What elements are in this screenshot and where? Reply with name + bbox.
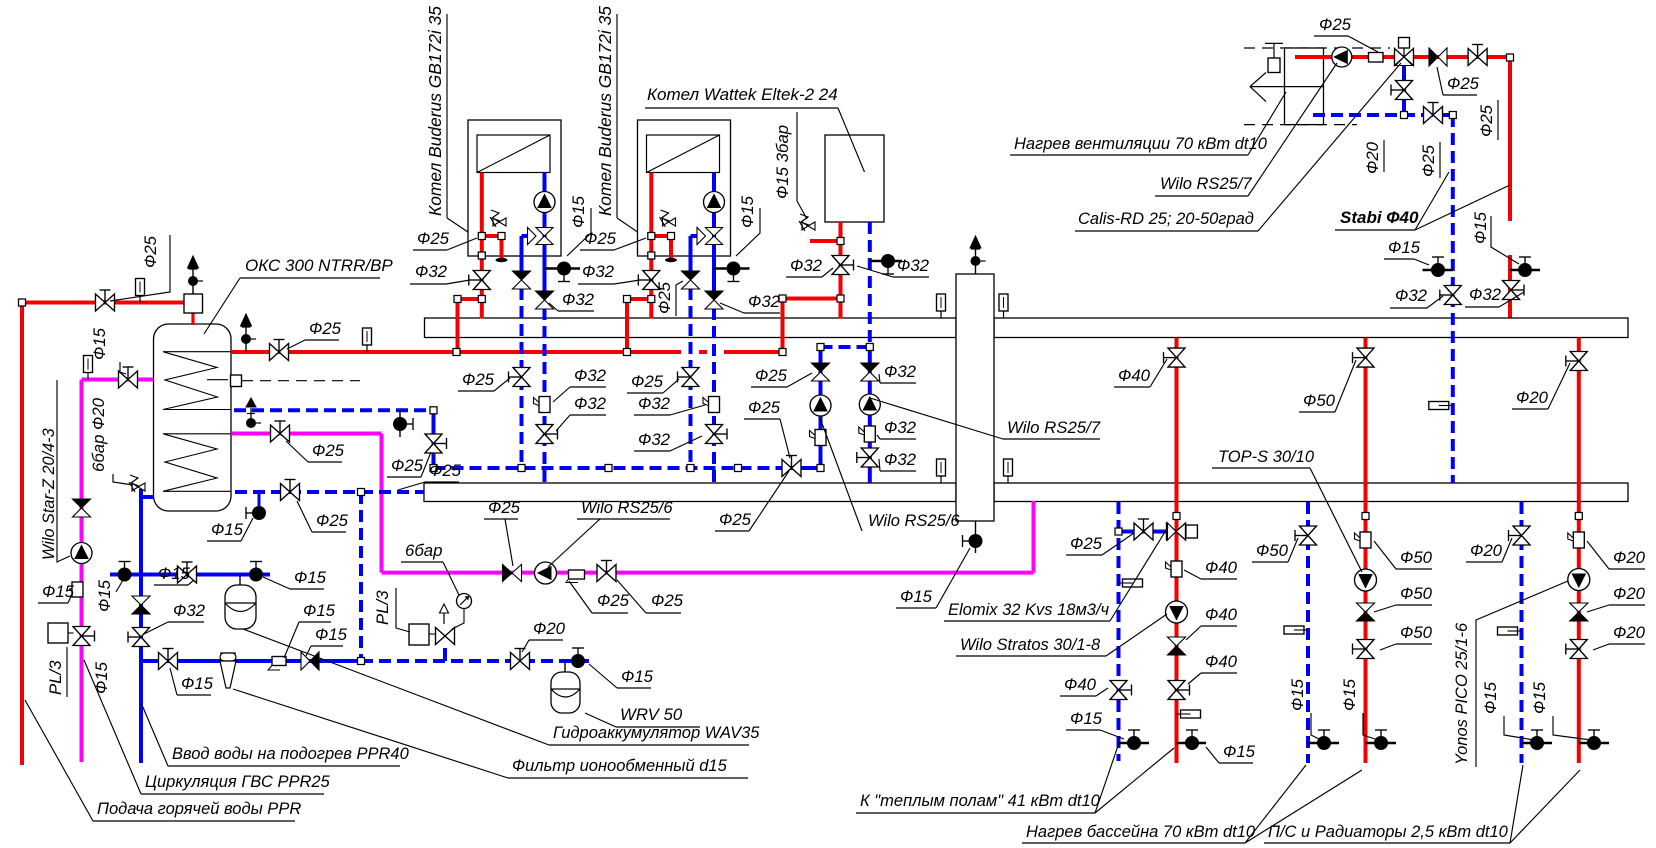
label Ф25 B2 column (rot) xyxy=(655,281,674,314)
expansion vessel WRV 50 xyxy=(551,661,580,713)
label Ф25 leg A check xyxy=(751,366,812,387)
ventilation duct upper boundary xyxy=(1244,47,1390,49)
svg-text:6бар: 6бар xyxy=(405,541,442,560)
label Ф32 B2 xyxy=(578,262,640,284)
node B2 c xyxy=(624,296,631,303)
svg-text:Ф32: Ф32 xyxy=(897,256,930,275)
label Котел Buderus GB172i 35 (B2) xyxy=(595,6,615,216)
label Ф25 tank supply valve xyxy=(287,319,342,349)
label Ф25 header xyxy=(715,471,789,531)
valve Ф40 circuit A xyxy=(1164,348,1186,367)
svg-text:Ф40: Ф40 xyxy=(1205,605,1238,624)
label Ф25 mixing link valve xyxy=(1066,533,1134,555)
pipe B2 return xyxy=(691,173,715,484)
check valve Ф50 circuit B xyxy=(1357,603,1375,621)
svg-text:П/С и Радиаторы 2,5 кВт dt10: П/С и Радиаторы 2,5 кВт dt10 xyxy=(1268,823,1509,841)
svg-text:Ф15: Ф15 xyxy=(315,625,348,644)
tag on Stabi line xyxy=(1429,402,1453,410)
vent supply ball valve stub xyxy=(1510,269,1540,272)
drain ball Ф15 on tank return xyxy=(393,410,413,437)
valve Ф40 circuit A supply low xyxy=(1168,681,1190,700)
svg-text:Циркуляция ГВС PPR25: Циркуляция ГВС PPR25 xyxy=(145,773,331,791)
pump Yonos PICO 25/1-6 xyxy=(1568,569,1590,591)
svg-text:Ф15: Ф15 xyxy=(1070,709,1103,728)
3-way valve B1 xyxy=(528,228,554,245)
svg-text:Ф15: Ф15 xyxy=(158,564,191,583)
label Ф25 return link valve xyxy=(387,452,431,477)
leader Ф25 B2 column xyxy=(676,281,683,316)
valve Ф32 vent supply riser xyxy=(1503,281,1525,300)
node B1 b xyxy=(498,233,505,240)
tag circuit A return xyxy=(1119,579,1143,587)
svg-text:Wilo RS25/7: Wilo RS25/7 xyxy=(1007,418,1101,437)
label PL/3 rot xyxy=(46,660,65,695)
svg-text:Ф32: Ф32 xyxy=(582,262,615,281)
svg-text:Подача горячей воды PPR: Подача горячей воды PPR xyxy=(97,800,301,818)
svg-text:Ф40: Ф40 xyxy=(1064,675,1097,694)
svg-text:Ф32: Ф32 xyxy=(884,450,917,469)
label Ф15 B2 ball xyxy=(738,195,757,228)
valve Ф25 tank cold feed xyxy=(281,480,300,501)
valve Ф25 B2 supply xyxy=(638,271,660,290)
svg-text:Ф32: Ф32 xyxy=(884,418,917,437)
pipe DHW recirculation line xyxy=(232,434,1034,573)
svg-text:Ф20: Ф20 xyxy=(1516,388,1549,407)
3-way valve Calis-RD 25 xyxy=(1395,38,1414,66)
pipe DHW circulation riser xyxy=(82,380,154,763)
svg-text:PL/3: PL/3 xyxy=(373,590,392,625)
thermometer return manifold east xyxy=(1004,459,1013,483)
vent heater midline + air flow arrow xyxy=(1250,73,1324,102)
ball valve Ф15 on Stabi line xyxy=(1431,257,1445,277)
pipe vent heater supply xyxy=(1295,57,1510,318)
leader Ф15 B1 ball xyxy=(567,208,591,256)
svg-text:WRV 50: WRV 50 xyxy=(620,705,683,724)
check valve soft water xyxy=(301,652,319,670)
node red corner xyxy=(19,299,26,306)
leader PL/3 reducer xyxy=(396,588,410,632)
return manifold (right section) xyxy=(994,483,1628,502)
svg-text:Calis-RD 25; 20-50град: Calis-RD 25; 20-50град xyxy=(1078,210,1254,228)
drain ball Ф15 B1 xyxy=(557,262,571,282)
leader rads 2 xyxy=(1510,770,1580,843)
label Ф32 B3 supply pipe xyxy=(786,256,833,277)
label Ф40 A check xyxy=(1186,605,1238,640)
leader Ф15 riser ball xyxy=(1491,216,1519,264)
check valve vent supply xyxy=(1429,48,1447,66)
pipe circuit C return (dashed) xyxy=(1520,502,1524,763)
tank top fitting box xyxy=(184,294,203,313)
svg-text:Ф25: Ф25 xyxy=(141,235,160,268)
label Ф40 A valve xyxy=(1188,652,1238,684)
svg-text:Ф40: Ф40 xyxy=(1205,558,1238,577)
node B3 a xyxy=(837,238,844,245)
svg-text:Ф25: Ф25 xyxy=(391,456,424,475)
union on recirculation xyxy=(566,570,585,583)
node B1 casing xyxy=(478,252,485,259)
pump Wilo Stratos 30/1-8 xyxy=(1166,601,1188,623)
node circuit A supply xyxy=(1173,513,1180,520)
label Ф15 rot circ drain xyxy=(92,661,111,694)
relief arrow xyxy=(440,604,449,624)
pump Wilo Star-Z 20/4-3 xyxy=(71,543,92,564)
valve Ф25 B1 return column xyxy=(509,368,531,387)
label Ф20 C valve xyxy=(1593,623,1646,650)
label Wilo RS25/6 legs xyxy=(820,418,960,531)
node vent supply corner xyxy=(1507,54,1514,61)
svg-text:Ф15: Ф15 xyxy=(900,587,933,606)
leader Ф15 B ret xyxy=(1311,713,1321,740)
valve Ф25 mixing link xyxy=(1134,519,1153,540)
label Ф25 vent return xyxy=(1419,144,1438,177)
valve Ф32 B2 column xyxy=(706,425,728,444)
pipe circuit B return (dashed) xyxy=(1306,502,1310,763)
tank sensor port xyxy=(231,375,242,387)
svg-text:Котел Buderus GB172i 35: Котел Buderus GB172i 35 xyxy=(425,6,445,216)
label ОКС 300 NTRR/BP xyxy=(204,256,393,334)
svg-text:Ф25: Ф25 xyxy=(755,366,788,385)
leader Ф15 B sup xyxy=(1363,713,1378,740)
label Ф15 union port xyxy=(284,601,336,658)
valve Ф32 Stabi line xyxy=(1440,286,1462,305)
label Ф32 vent riser valve xyxy=(1465,285,1524,307)
svg-text:Ф50: Ф50 xyxy=(1303,391,1336,410)
valve Ф25 B1 supply xyxy=(469,271,491,290)
svg-text:Ф32: Ф32 xyxy=(884,362,917,381)
drain ball Ф15 B3 xyxy=(881,254,895,274)
pipe return pump leg B xyxy=(868,347,872,483)
B2 drain stub xyxy=(714,267,750,270)
label Ф25 recirc valve E xyxy=(617,580,684,613)
node B2 d xyxy=(648,296,655,303)
label Ф15 lower-branch valve xyxy=(170,668,214,695)
pipe tank top red line xyxy=(22,303,193,766)
label Wilo RS25/7 (vent pump) xyxy=(1155,63,1337,196)
svg-text:Ф25: Ф25 xyxy=(312,441,345,460)
valve Ф25 return header xyxy=(782,456,801,477)
svg-text:Ф25: Ф25 xyxy=(1070,534,1103,553)
label 6бар rot cold riser xyxy=(89,435,108,472)
label Ф25 recirc valve xyxy=(484,498,521,566)
label Ф15 upper-branch valve xyxy=(154,564,194,585)
svg-text:Ф15: Ф15 xyxy=(1481,681,1500,714)
node vent return corner xyxy=(1449,112,1456,119)
check valve DHW circulation xyxy=(73,499,91,517)
label Calis-RD 25; 20-50град xyxy=(1075,63,1401,231)
pipe soft water dashed branch xyxy=(361,492,593,661)
label Котел Wattek Eltek-2 24 xyxy=(645,85,865,172)
valve Ф20 circuit C xyxy=(1566,352,1588,371)
svg-text:Ф20: Ф20 xyxy=(89,397,108,430)
label Elomix 32 Kvs 18м3/ч xyxy=(944,527,1168,621)
air vent on tank top fitting xyxy=(188,256,204,294)
hydraulic separator xyxy=(956,274,994,521)
tank level dashed line xyxy=(207,380,360,381)
svg-text:Ф25: Ф25 xyxy=(651,591,684,610)
svg-text:Ф25: Ф25 xyxy=(1447,74,1480,93)
svg-text:Ф15: Ф15 xyxy=(1223,742,1256,761)
node circuit C supply xyxy=(1575,513,1582,520)
svg-text:Ф20: Ф20 xyxy=(1613,584,1646,603)
label Ф25 vent riser xyxy=(1477,104,1496,137)
svg-text:Нагрев бассейна 70 кВт dt10: Нагрев бассейна 70 кВт dt10 xyxy=(1026,823,1256,841)
leader warm floors 2 xyxy=(1095,748,1174,813)
boiler B2 heat exchanger block xyxy=(647,135,720,173)
label Ф20 C union xyxy=(1587,541,1646,569)
label Ф15 vent riser ball xyxy=(1471,211,1490,244)
thermometer on tank top line xyxy=(136,279,145,303)
node tie west xyxy=(817,344,824,351)
return manifold (left section) xyxy=(424,483,956,502)
svg-text:Ф25: Ф25 xyxy=(719,510,752,529)
thermometer supply manifold west xyxy=(937,294,946,318)
svg-text:Wilo Star-Z 20/4-3: Wilo Star-Z 20/4-3 xyxy=(40,428,58,560)
valve Ф50 circuit B return xyxy=(1295,526,1317,545)
drain valve on cold riser xyxy=(128,628,150,647)
label Ф40 circuit A valve xyxy=(1114,359,1167,387)
node return header west end xyxy=(430,465,437,472)
valve Ф20 circuit C low xyxy=(1566,640,1588,659)
check valve B2 return xyxy=(705,291,723,309)
tag circuit C return xyxy=(1498,627,1522,635)
label Ф32 B1 union xyxy=(553,366,607,402)
svg-text:Ф25: Ф25 xyxy=(462,370,495,389)
pipe B3 return (dashed) xyxy=(868,222,872,347)
drain ball Ф15 circuit C supply xyxy=(1579,730,1609,750)
pipe B1 supply drop xyxy=(458,173,502,353)
label Wilo Stratos 30/1-8 xyxy=(956,614,1167,656)
valve Ф15 DHW circulation xyxy=(119,367,138,388)
node header 5 xyxy=(817,465,824,472)
svg-text:Wilo RS25/7: Wilo RS25/7 xyxy=(1160,175,1252,193)
label Нагрев вентиляции 70 кВт dt10 xyxy=(1010,92,1286,155)
label Ф25 feed valve xyxy=(297,501,349,532)
drain ball Ф15 tank cold feed xyxy=(246,506,266,520)
svg-text:Ф25: Ф25 xyxy=(597,591,630,610)
label Ф32 B2 valve xyxy=(634,430,702,451)
label Ф32 leg B valve xyxy=(879,450,917,471)
tag circuit B return xyxy=(1284,626,1308,634)
check valve B1 bypass xyxy=(513,271,531,289)
label Ф32 B3 valve xyxy=(857,256,930,277)
check valve return leg B xyxy=(861,363,879,381)
svg-text:Котел Wattek Eltek-2 24: Котел Wattek Eltek-2 24 xyxy=(647,85,838,104)
label Ф15 stabi ball xyxy=(1384,238,1429,265)
label Ф15 B supply ball rot xyxy=(1340,678,1359,711)
air vent on tank supply line xyxy=(241,314,257,352)
leader PL/3 xyxy=(66,647,68,697)
svg-text:Ф32: Ф32 xyxy=(790,256,823,275)
pipe circuit A return (dashed) xyxy=(1117,502,1121,761)
svg-text:Фильтр ионообменный d15: Фильтр ионообменный d15 xyxy=(512,757,728,775)
label Ф25 B2 column xyxy=(627,372,679,393)
label Ф50 B valve xyxy=(1380,623,1433,650)
svg-text:Ф32: Ф32 xyxy=(415,262,448,281)
valve Ф20 vent bypass xyxy=(1391,81,1413,100)
svg-text:Ф40: Ф40 xyxy=(1205,652,1238,671)
label Ф15 check port xyxy=(306,625,348,656)
pump Wilo RS25/7 vent xyxy=(1332,47,1352,67)
label Подача горячей воды PPR xyxy=(25,700,301,821)
svg-text:Ф32: Ф32 xyxy=(574,394,607,413)
valve Ф25 B2 return column xyxy=(678,368,700,387)
valve Ф32 B3 supply xyxy=(832,256,854,275)
svg-text:Ф15: Ф15 xyxy=(1471,211,1490,244)
node B3 c xyxy=(837,295,844,302)
label Wilo RS25/6 recirc xyxy=(548,499,673,567)
drain ball Ф15 separator xyxy=(963,534,983,548)
union Ф32 leg B xyxy=(859,426,876,442)
svg-text:Wilo RS25/6: Wilo RS25/6 xyxy=(581,499,673,517)
union Ф40 circuit A xyxy=(1166,561,1183,577)
node header 3 xyxy=(687,465,694,472)
label Ф25 cold feed pipe xyxy=(398,461,462,490)
svg-text:Stabi Ф40: Stabi Ф40 xyxy=(1340,208,1419,227)
leader Ф15 under ball xyxy=(116,580,123,592)
node circuit A mix xyxy=(1115,528,1122,535)
boiler B2 label leader xyxy=(617,14,638,232)
ball valve Ф15 on vent supply riser xyxy=(1518,257,1532,277)
node B2 b xyxy=(668,233,675,240)
svg-text:PL/3: PL/3 xyxy=(46,660,65,695)
label Ф25 header valve xyxy=(744,398,790,458)
check valve B1 return xyxy=(536,291,554,309)
safety valve B1 xyxy=(490,210,506,227)
label Ф32 stabi valve xyxy=(1390,286,1443,308)
svg-text:Ф25: Ф25 xyxy=(1477,104,1496,137)
valve Ф32 B1 column xyxy=(536,425,558,444)
label Wilo Star-Z 20/4-3 xyxy=(40,428,58,560)
thermometer return manifold west xyxy=(937,459,946,483)
pump Wilo RS25/6 recirculation xyxy=(535,562,557,584)
pipe boiler return header (dashed) xyxy=(434,466,821,470)
label Ф15 C return ball rot xyxy=(1481,681,1500,714)
svg-text:Ф20: Ф20 xyxy=(1470,541,1503,560)
node B3 b xyxy=(779,295,786,302)
pressure reducer valve xyxy=(436,628,455,645)
node soft water junction xyxy=(358,658,365,665)
label Ф50 B union xyxy=(1374,541,1433,569)
node B1 d xyxy=(478,296,485,303)
ball valve Ф15 west xyxy=(118,562,132,582)
label Ф15 feed drain ball xyxy=(207,518,253,541)
label Ф20 rot circulation xyxy=(89,397,108,430)
label К теплым полам 41 кВт dt10 xyxy=(856,740,1120,813)
svg-text:Ф25: Ф25 xyxy=(309,319,342,338)
pipe reducer stub xyxy=(443,648,447,661)
node soft water branch xyxy=(358,489,365,496)
B3 drain stub xyxy=(870,260,902,263)
svg-text:К "теплым полам" 41 кВт dt10: К "теплым полам" 41 кВт dt10 xyxy=(860,792,1101,810)
svg-text:Ф15 3бар: Ф15 3бар xyxy=(773,125,792,199)
svg-text:Ф20: Ф20 xyxy=(1613,623,1646,642)
svg-text:Ф32: Ф32 xyxy=(638,430,671,449)
3-way valve B2 xyxy=(697,228,723,245)
valve Ф20 soft water xyxy=(511,649,530,670)
leader pool 2 xyxy=(1245,770,1362,843)
svg-text:6бар: 6бар xyxy=(89,435,108,472)
svg-text:Wilo RS25/6: Wilo RS25/6 xyxy=(868,512,960,530)
leader Ф25 riser xyxy=(1497,100,1499,140)
svg-text:Ф15: Ф15 xyxy=(181,674,214,693)
label Ф15 separator drain xyxy=(896,548,970,608)
svg-text:Ф32: Ф32 xyxy=(574,366,607,385)
label Wilo RS25/7 legs xyxy=(870,398,1101,439)
svg-text:Ф25: Ф25 xyxy=(655,281,674,314)
svg-text:Ф15: Ф15 xyxy=(738,195,757,228)
label Ф15 rot under ball xyxy=(95,579,114,612)
label Ф25 rot top-left xyxy=(141,235,160,268)
label Ф15 B return ball rot xyxy=(1288,678,1307,711)
pipe B1 return xyxy=(522,173,545,484)
svg-text:Котел Buderus GB172i 35: Котел Buderus GB172i 35 xyxy=(595,6,615,216)
air vent on tank return xyxy=(246,398,261,428)
union Ф32 B2 column xyxy=(703,397,720,413)
svg-text:Ф32: Ф32 xyxy=(748,292,781,311)
union Ф50 circuit B xyxy=(1355,532,1372,548)
node header 4 xyxy=(735,465,742,472)
svg-text:Ф25: Ф25 xyxy=(316,511,349,530)
drain ball Ф15 circuit A supply xyxy=(1177,730,1207,750)
drain ball Ф15 circuit B supply xyxy=(1366,730,1397,750)
check valve Ф20 circuit C xyxy=(1570,603,1588,621)
thermometer on supply main xyxy=(363,328,372,352)
label Yonos PICO 25/1-6 xyxy=(1453,622,1471,765)
leader Ф15 C ret xyxy=(1504,716,1534,740)
pipe cold water inlet riser xyxy=(141,489,154,763)
svg-text:Ф32: Ф32 xyxy=(173,601,206,620)
B1 drain stub xyxy=(545,267,581,270)
pipe vent heater return (dashed) xyxy=(1313,113,1453,117)
label Ф32 B1 check xyxy=(549,290,595,311)
pipe tank return (dashed) xyxy=(234,408,434,412)
pipe tank return down link xyxy=(432,410,436,468)
svg-text:Ф25: Ф25 xyxy=(748,398,781,417)
label Ф20 vent bypass xyxy=(1363,141,1382,174)
tank upper coil xyxy=(163,352,231,410)
svg-text:Ф15: Ф15 xyxy=(294,568,327,587)
svg-text:Ф25: Ф25 xyxy=(1319,15,1352,34)
label Ф50 circuit B valve xyxy=(1299,360,1356,412)
label Ф32 B1 valve xyxy=(556,394,607,431)
label Ф25 recirc union xyxy=(569,581,630,613)
label Котел Buderus GB172i 35 (B1) xyxy=(425,6,445,216)
svg-text:Ф20: Ф20 xyxy=(1613,548,1646,567)
label Ф20 C check xyxy=(1587,584,1646,612)
pipe tank right red outlet xyxy=(231,350,233,354)
label Ф50 B check xyxy=(1374,584,1433,612)
tag circuit A supply xyxy=(1177,710,1201,718)
label Ф20 circuit C valve xyxy=(1512,363,1570,409)
pipe B2 supply drop xyxy=(627,173,671,353)
label Ф25 B1 column xyxy=(458,370,510,391)
ventilation duct lower boundary xyxy=(1244,124,1357,126)
label Ф40 A union xyxy=(1184,558,1238,579)
pump B1 built-in xyxy=(534,192,555,213)
leader Ф15 magenta xyxy=(120,362,126,374)
label Ф25 vent top xyxy=(1314,15,1378,52)
valve Ф20 circuit C return xyxy=(1509,526,1531,545)
leader Stabi to red riser xyxy=(1415,185,1510,230)
valve Ф25 on hot water outlet xyxy=(96,290,115,311)
expansion vessel WAV35 xyxy=(225,575,256,630)
pump Wilo RS25/7 return leg B xyxy=(859,394,880,415)
svg-text:Ф40: Ф40 xyxy=(1118,366,1151,385)
separator drain stem xyxy=(975,521,977,553)
node tie east xyxy=(866,344,873,351)
label Ф40 A return valve xyxy=(1060,675,1108,696)
label Ф32 leg B union xyxy=(877,418,917,439)
